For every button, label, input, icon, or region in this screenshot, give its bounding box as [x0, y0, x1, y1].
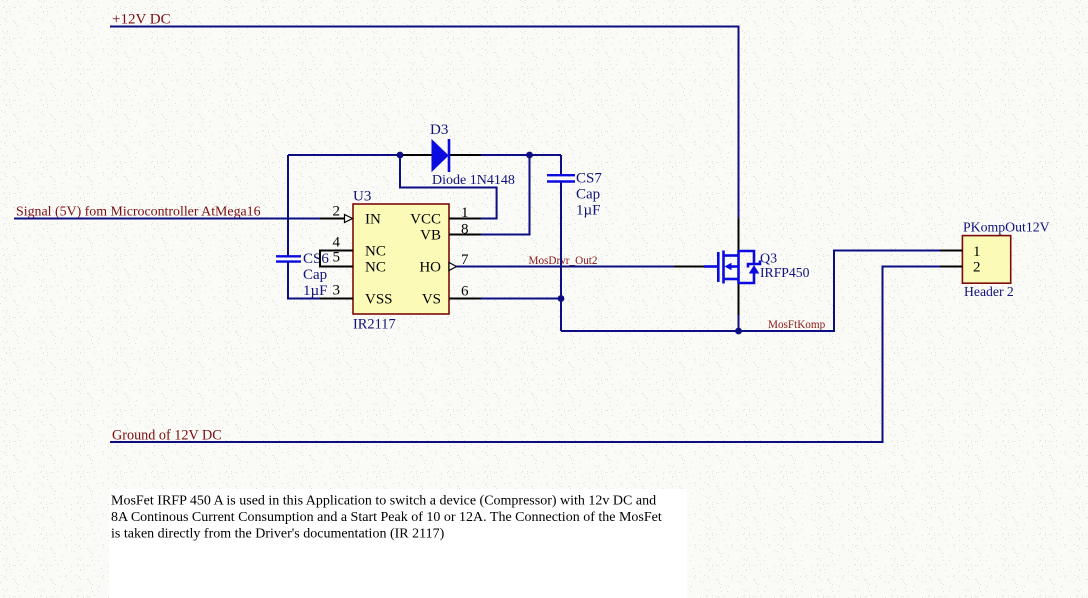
svg-text:1µF: 1µF: [303, 283, 328, 299]
Q3 source pin stub: [738, 283, 740, 315]
wire cathode to CS7 corner: [481, 154, 561, 156]
svg-text:1: 1: [973, 244, 981, 260]
svg-text:PKompOut12V: PKompOut12V: [963, 220, 1050, 235]
wire VS net: [481, 298, 561, 300]
wire +12V rail: [110, 27, 739, 219]
pin 4 stub: [320, 250, 353, 252]
body diode loop: [739, 251, 755, 263]
svg-text:MosFtKomp: MosFtKomp: [768, 319, 826, 331]
wire signal net: [14, 218, 320, 220]
pin 5 stub: [320, 266, 353, 268]
wire CS7 bottom down to MosFtKomp: [560, 182, 562, 332]
svg-text:IN: IN: [365, 212, 381, 228]
capacitor CS6 symbol: [276, 256, 301, 261]
wire CS6 branch vertical: [287, 155, 289, 256]
diode anode pin stub: [400, 154, 432, 156]
wire diode rail: [288, 154, 400, 156]
pin 3 stub: [320, 298, 353, 300]
junction dot rail/VCC: [397, 152, 404, 159]
svg-text:+12V DC: +12V DC: [112, 12, 171, 28]
NC tie vertical: [319, 250, 321, 268]
capacitor CS7 symbol: [547, 175, 575, 181]
svg-text:Cap: Cap: [303, 267, 327, 283]
Q3 body diode triangle: [749, 265, 760, 274]
svg-text:Cap: Cap: [576, 187, 600, 203]
svg-text:NC: NC: [365, 260, 386, 276]
wire CS7 top: [560, 155, 562, 175]
pin 2 input arrow: [345, 215, 353, 223]
Q3 arrow: [725, 263, 732, 270]
junction dot VS/CS7: [558, 295, 565, 302]
pin 6 stub: [449, 298, 481, 300]
junction dot source/MosFtKomp: [735, 328, 742, 335]
gate bar: [717, 252, 720, 282]
wire CS6 bottom to VSS: [288, 262, 320, 299]
IC U3 body: [353, 204, 449, 314]
svg-text:4: 4: [333, 235, 341, 251]
svg-text:Header 2: Header 2: [964, 284, 1014, 299]
wire VB net: [481, 155, 530, 235]
header pin2 stub: [940, 266, 962, 268]
svg-text:6: 6: [461, 284, 469, 300]
svg-text:IR2117: IR2117: [353, 317, 396, 333]
wire VCC net: [400, 155, 497, 219]
svg-text:1µF: 1µF: [576, 203, 601, 219]
svg-text:VSS: VSS: [365, 292, 393, 308]
svg-text:IRFP450: IRFP450: [760, 265, 810, 280]
gate lead: [704, 265, 717, 268]
source stub: [724, 278, 739, 281]
svg-text:D3: D3: [430, 122, 448, 138]
wire MosFtKomp horizontal: [561, 251, 940, 332]
svg-text:3: 3: [333, 283, 341, 299]
svg-text:5: 5: [333, 250, 341, 266]
svg-text:MosDrvr_Out2: MosDrvr_Out2: [529, 255, 598, 267]
wire source to MosFtKomp: [738, 315, 740, 331]
svg-text:MosFet IRFP 450 A is used in t: MosFet IRFP 450 A is used in this Applic…: [111, 494, 656, 509]
junction dot rail/VB: [526, 152, 533, 159]
drain stub: [724, 254, 739, 257]
pin 7 output arrow: [449, 263, 457, 271]
channel bar: [722, 251, 725, 284]
svg-text:Signal (5V) fom Microcontrolle: Signal (5V) fom Microcontroller AtMega16: [16, 205, 261, 220]
svg-text:is taken directly from the Dri: is taken directly from the Driver's docu…: [111, 527, 445, 542]
svg-text:VS: VS: [422, 292, 441, 308]
wire Q3 drain pin stub: [738, 219, 740, 252]
Q3 gate pin stub: [674, 266, 704, 268]
middle stub: [731, 265, 739, 268]
header pin1 stub: [940, 250, 962, 252]
pin 8 stub: [449, 234, 481, 236]
svg-text:2: 2: [333, 204, 341, 220]
svg-text:CS7: CS7: [576, 171, 602, 187]
svg-text:NC: NC: [365, 244, 386, 260]
svg-text:HO: HO: [419, 260, 441, 276]
svg-text:CS6: CS6: [303, 251, 329, 267]
wire header pin2 to ground: [110, 267, 940, 443]
svg-text:8A Continous Current Consumpti: 8A Continous Current Consumption and a S…: [111, 510, 662, 525]
schottky bar: [748, 261, 760, 268]
pin 2 stub: [320, 218, 344, 220]
transistor Q3 symbol: [704, 251, 760, 284]
diode D3 symbol: [432, 139, 449, 172]
svg-text:2: 2: [973, 260, 981, 276]
svg-text:U3: U3: [353, 189, 371, 205]
wire HO net: [457, 266, 675, 268]
pin 1 stub: [449, 218, 481, 220]
svg-text:Diode 1N4148: Diode 1N4148: [432, 173, 515, 188]
annotation paragraph: [111, 494, 662, 542]
svg-text:VCC: VCC: [410, 212, 441, 228]
header body: [962, 236, 1010, 284]
text frame white box: [109, 489, 687, 598]
diode cathode pin stub: [449, 154, 481, 156]
trunk: [737, 251, 740, 284]
svg-text:VB: VB: [420, 228, 441, 244]
